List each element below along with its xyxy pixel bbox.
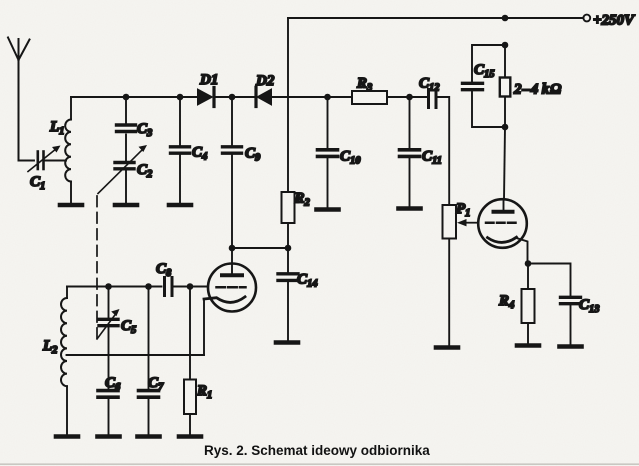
tube V2 anode [494,200,513,212]
capacitor C4 [171,147,190,153]
wire C5 to C6 [108,327,110,389]
node (R2/C14/anode) [285,245,292,252]
tube V1 envelope [208,264,256,312]
wire C9 down to anode node [231,155,233,249]
wire V2 cathode tail [516,238,528,264]
ground (C10) [317,207,339,212]
wire +250V top rail [288,17,584,19]
wire C2 to ground [125,170,127,203]
antenna [8,38,30,161]
wire R1 to ground [189,414,191,434]
wire C11 to ground [409,158,411,207]
wire grid rail [67,286,162,288]
ground (C13) [560,344,582,349]
svg-text:D1: D1 [199,72,218,88]
svg-text:Rys. 2. Schemat ideowy odbi: Rys. 2. Schemat ideowy odbiornika [204,443,430,458]
wire C5 column top [108,287,110,318]
ground (C4) [169,203,191,208]
capacitor C1 (trimmer) [28,146,61,172]
wire C7 column [148,287,150,390]
wire C13 to ground [570,305,572,344]
svg-text:D2: D2 [255,73,275,89]
wire cathode to L2 tap [67,354,205,356]
inductor L2 [61,287,67,387]
capacitor C4 column wire [179,97,181,145]
wire cathode to R4 [527,264,529,290]
wire C14 top [287,248,289,272]
wire R4 to ground [527,323,529,343]
wire cathode to C13 [528,264,571,296]
ground (C7) [138,434,160,439]
node (C3 column) [123,94,130,101]
wire V1 cathode tail [203,299,205,355]
wire grid to P1 wiper arrow [457,219,477,226]
node (cathode) [525,260,532,267]
wire C10 to ground [327,158,329,208]
potentiometer P1 [443,205,457,239]
tube V2 envelope [478,199,527,248]
tube V1 anode [222,248,242,275]
capacitor C5 (variable) [97,309,120,339]
wire C10 column [327,97,329,148]
diode D2 [256,88,272,107]
ground (C11) [399,206,421,211]
wire L2 to ground [66,386,68,434]
wire C6 to ground [108,399,110,435]
node (C4 column) [177,94,184,101]
capacitor C10 [318,150,338,157]
gang line (dashed) [96,196,98,338]
wire C8 to grid [174,286,209,288]
ground (R4) [517,343,539,348]
wire R2 to node [287,223,289,248]
ground (P1) [436,345,458,350]
wire C14 to ground [287,282,289,341]
bottom scan rule [0,463,639,465]
resistor R1 [184,380,196,415]
wire C7 to ground [148,399,150,435]
capacitor C3 [117,125,136,132]
capacitor C9 column wire [231,97,233,145]
wire C11 column [409,97,411,148]
wire to V2 anode [504,127,505,200]
node (C11 column) [406,94,413,101]
wire C3 to C2 [125,135,127,161]
node (C7 column) [145,283,152,290]
wire C4 to ground [179,155,181,204]
capacitor C15 [463,83,483,89]
capacitor C7 [139,391,159,398]
node (C10 column) [324,94,331,101]
tube V2 grid [486,221,517,224]
capacitor C11 [400,150,420,157]
resistor 2-4k [500,78,511,97]
diode D1 [198,88,215,107]
tube V1 cathode [204,297,245,303]
capacitor C8 [165,278,173,296]
wire D1 to D2 [214,96,255,98]
wire R3 to C12 [387,96,427,98]
wire HT vertical to R2 [287,18,289,192]
capacitor C13 [561,297,581,303]
resistor R3 [352,91,387,104]
wire antenna to C1 [19,160,35,162]
capacitor C2 (variable) [98,145,147,194]
node (HT branch) [502,15,509,22]
wire P1 to ground [448,239,450,346]
wire detector rail left [71,96,198,98]
capacitor C14 [278,274,298,281]
ground (L2) [56,434,78,439]
tube V2 cathode [488,237,517,242]
capacitor C6 [98,391,118,398]
node (anode V2) [502,124,509,131]
terminal +250V [583,15,590,22]
tube V1 grid [217,286,246,289]
wire D2 to R3 [272,96,353,98]
capacitor C12 [429,90,437,108]
inductor L1 [65,120,71,182]
node (anode) [229,245,236,252]
resistor R4 [522,289,535,323]
ground (R1) [179,434,201,439]
wire R1 column [189,287,191,380]
wire C15 branch top [472,45,505,82]
ground (C6) [98,434,120,439]
wire C15 branch bottom [472,91,505,127]
ground (C2) [115,203,137,208]
capacitor C3 column wire [125,97,127,123]
svg-text:2–4kΩ: 2–4kΩ [513,82,562,98]
node (R1 column) [187,283,194,290]
node (C9 column) [229,94,236,101]
wire anode link [232,247,288,249]
ground (C14) [276,340,298,345]
ground (L1) [60,203,82,208]
node (C5 column) [105,283,112,290]
wire resistor leads [504,45,506,78]
wire L1 bottom [70,182,72,204]
wire HT branch node [502,42,509,49]
svg-text:+250V: +250V [593,13,636,29]
wire C12 to P1 [438,97,450,205]
wire C1 to L1 [45,160,67,162]
wire L1 top riser [70,97,72,120]
capacitor C9 [223,147,242,153]
resistor R2 [282,192,295,223]
